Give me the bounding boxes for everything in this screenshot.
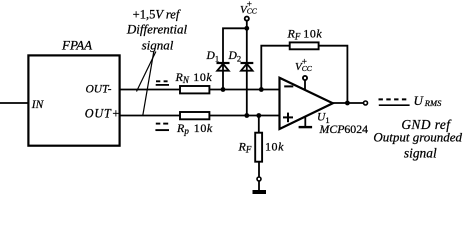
pointer line to OUT+ wire xyxy=(143,52,154,117)
resistor RN xyxy=(180,86,209,93)
op-amp plus sign xyxy=(283,113,293,123)
wire Vcc down to junction xyxy=(246,21,248,29)
svg-text:+: + xyxy=(247,0,252,10)
junction dot Vcc branch xyxy=(244,26,249,31)
svg-text:10k: 10k xyxy=(193,70,212,84)
svg-text:10k: 10k xyxy=(303,27,322,41)
svg-text:signal: signal xyxy=(142,38,174,53)
ground node circle xyxy=(257,177,261,181)
output marker dashed line xyxy=(379,98,409,100)
pointer line to OUT- wire xyxy=(137,52,156,92)
differential marker on OUT- wire xyxy=(156,81,169,85)
svg-text:+: + xyxy=(302,57,307,67)
output marker solid line xyxy=(379,104,410,106)
resistor RF feedback xyxy=(290,42,319,49)
svg-text:RN: RN xyxy=(175,70,192,85)
svg-text:OUT+: OUT+ xyxy=(85,106,121,120)
junction dot RF ground tap xyxy=(256,113,261,118)
svg-text:U: U xyxy=(414,93,425,108)
svg-text:10k: 10k xyxy=(194,121,213,135)
junction dot D2 on OUT+ wire xyxy=(244,113,249,118)
svg-text:RF: RF xyxy=(287,27,301,42)
wire input xyxy=(0,102,29,104)
wire OUT- to op-amp inverting input xyxy=(119,89,280,91)
resistor RF grounded xyxy=(255,133,262,162)
svg-text:RMS: RMS xyxy=(424,98,442,108)
svg-text:Output grounded: Output grounded xyxy=(373,130,462,145)
wire output xyxy=(333,102,364,104)
svg-text:D2: D2 xyxy=(228,50,242,64)
resistor RP xyxy=(180,112,209,119)
diode D2 xyxy=(241,63,254,116)
svg-text:FPAA: FPAA xyxy=(61,38,92,53)
op-amp Vss ground pin xyxy=(304,116,306,126)
svg-text:RF: RF xyxy=(238,140,252,155)
wire RF ground branch xyxy=(258,116,260,134)
op-amp U1 xyxy=(280,78,333,129)
diode D1 xyxy=(217,63,230,90)
svg-text:Rp: Rp xyxy=(176,121,192,136)
junction dot output feedback xyxy=(345,101,350,106)
wire OUT+ to op-amp non-inverting input xyxy=(119,115,280,117)
ground xyxy=(253,190,267,194)
svg-text:IN: IN xyxy=(31,99,45,111)
differential marker on OUT+ wire xyxy=(155,124,169,131)
feedback right wire xyxy=(320,46,348,103)
wire junction to D2 top xyxy=(246,28,248,62)
wire junction to D1 top xyxy=(223,28,247,62)
junction dot feedback tap xyxy=(259,87,264,92)
svg-text:10k: 10k xyxy=(265,140,284,154)
svg-text:Differential: Differential xyxy=(126,22,188,37)
feedback left wire xyxy=(261,46,289,90)
wire resistor to ground node xyxy=(258,163,260,178)
svg-text:signal: signal xyxy=(404,145,437,160)
op-amp minus sign xyxy=(284,85,293,87)
output terminal xyxy=(364,101,368,105)
svg-text:D1: D1 xyxy=(206,50,220,64)
wire node to ground xyxy=(258,181,260,190)
svg-text:OUT-: OUT- xyxy=(86,83,112,95)
svg-text:MCP6024: MCP6024 xyxy=(319,122,369,136)
FPAA block xyxy=(28,55,119,145)
svg-text:+1,5V ref: +1,5V ref xyxy=(133,7,181,21)
junction dot D1 on OUT- wire xyxy=(221,87,226,92)
